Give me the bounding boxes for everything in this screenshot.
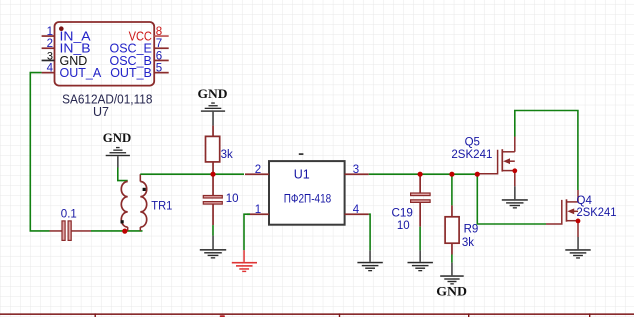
svg-text:1: 1 — [255, 204, 261, 216]
svg-text:2: 2 — [47, 38, 53, 50]
ground under Q4 — [565, 237, 590, 259]
svg-text:2: 2 — [255, 164, 261, 176]
transistor Q4 2SK241 — [546, 190, 617, 237]
filter U1 body — [269, 153, 345, 225]
U1 pin 1 — [247, 204, 269, 216]
transistor Q5 2SK241 — [451, 137, 514, 187]
U7 pin 3 — [42, 50, 88, 68]
junction node at Q4 gate branch — [475, 172, 480, 177]
drain lead up — [577, 190, 579, 202]
svg-text:3: 3 — [353, 164, 359, 176]
ground under Q5 — [502, 186, 528, 208]
capacitor 0.1 (coupling) — [50, 209, 92, 241]
wire U1 pin1 down to earth — [244, 214, 250, 250]
source lead down — [577, 221, 579, 237]
U7 pin 8 (VCC) — [129, 26, 169, 43]
junction node at Q4 source/body — [576, 219, 581, 224]
drain stub — [502, 151, 515, 153]
wire to Q4 gate (from bus junction) — [477, 174, 546, 224]
junction node at Q5 source/body — [512, 168, 517, 173]
svg-text:10: 10 — [397, 220, 410, 232]
ground under C19 — [408, 250, 433, 271]
wire C19 to ground — [419, 227, 421, 251]
svg-text:6: 6 — [156, 50, 162, 62]
polarity dot primary — [121, 220, 124, 223]
svg-text:4: 4 — [353, 204, 360, 216]
secondary bottom lead — [139, 227, 141, 231]
svg-text:U7: U7 — [93, 105, 109, 119]
U7 pin 1 — [42, 26, 92, 43]
body stub with arrow — [570, 210, 578, 212]
junction node at transformer bottom — [122, 229, 127, 234]
wire U1 pin4 down to ground — [369, 214, 370, 250]
drain lead up — [514, 137, 516, 152]
junction node at R9 — [449, 172, 454, 177]
resistor R9 — [445, 174, 478, 254]
wire cap 10 to ground — [212, 225, 214, 236]
junction node at C19 — [418, 172, 423, 177]
svg-text:GND: GND — [103, 130, 131, 145]
sheet border — [0, 313, 634, 317]
IC U7 SA612AD body — [55, 22, 155, 86]
svg-text:2SK241: 2SK241 — [577, 207, 617, 219]
wire TR1 secondary to U1 pin 2 — [140, 173, 244, 175]
svg-text:3k: 3k — [462, 237, 474, 249]
svg-text:U1: U1 — [294, 167, 310, 181]
primary bottom lead — [127, 227, 129, 231]
gate lead — [546, 200, 562, 224]
secondary winding — [140, 182, 146, 228]
U7 pin 6 — [110, 50, 169, 68]
svg-text:1: 1 — [47, 26, 53, 38]
svg-text:5: 5 — [156, 63, 162, 75]
U1 pin 2 — [245, 164, 269, 176]
body stub with arrow — [506, 160, 515, 162]
svg-text:OUT_B: OUT_B — [110, 66, 152, 80]
primary winding — [121, 182, 127, 228]
svg-text:10: 10 — [226, 193, 239, 205]
svg-text:8: 8 — [156, 26, 162, 38]
svg-text:2SK241: 2SK241 — [451, 149, 492, 161]
transformer TR1 — [121, 174, 173, 231]
svg-text:ПФ2П-418: ПФ2П-418 — [284, 194, 332, 206]
wire R9 to ground — [451, 255, 453, 263]
capacitor C19 — [392, 174, 431, 232]
ground under U1 pin 4 — [357, 250, 382, 271]
svg-text:OUT_A: OUT_A — [60, 66, 102, 80]
svg-text:R9: R9 — [464, 224, 479, 236]
U1 pin 3 — [345, 164, 369, 176]
capacitor 10 (under 3k node) — [203, 174, 238, 225]
junction node at 3k / cap 10 — [210, 172, 215, 177]
polarity dot secondary — [143, 188, 146, 191]
wire GND to TR1 primary top — [118, 168, 128, 181]
drain loop wire Q5 to Q4 — [515, 111, 578, 191]
drain stub — [567, 201, 579, 203]
red earth ground under U1 pin 1 — [232, 250, 257, 272]
ground under cap 10 — [200, 236, 226, 259]
svg-text:GND: GND — [198, 86, 228, 101]
channel bar — [501, 149, 503, 171]
svg-text:3k: 3k — [221, 149, 233, 161]
U7 pin 7 — [110, 38, 169, 55]
wire from U7 pin4 down left side to coupling cap — [30, 73, 49, 231]
U1 pin 4 — [345, 204, 369, 216]
svg-text:C19: C19 — [392, 208, 413, 220]
svg-text:7: 7 — [156, 38, 162, 50]
GND power port under R9 — [436, 263, 467, 299]
GND power port above resistor 3k — [198, 86, 228, 125]
source stub — [567, 220, 579, 222]
svg-text:Q4: Q4 — [577, 195, 593, 207]
U7 pin 4 — [42, 63, 102, 81]
U7 pin 2 — [42, 38, 91, 55]
svg-text:0.1: 0.1 — [61, 209, 77, 221]
svg-text:TR1: TR1 — [151, 201, 172, 213]
svg-text:4: 4 — [47, 63, 54, 75]
GND power port above TR1 — [103, 130, 131, 167]
wire from cap 0.1 to transformer bottom node — [91, 230, 143, 232]
svg-text:GND: GND — [436, 283, 467, 298]
svg-text:Q5: Q5 — [465, 137, 480, 149]
channel bar — [566, 199, 568, 221]
main wire U1 pin3 to Q5 gate — [369, 173, 478, 175]
source stub — [502, 170, 515, 172]
U7 pin 5 — [110, 63, 168, 81]
svg-text:3: 3 — [47, 50, 53, 62]
secondary top lead — [139, 174, 141, 181]
source lead down — [514, 171, 516, 187]
gate lead — [478, 150, 498, 174]
resistor 3k — [206, 126, 233, 175]
